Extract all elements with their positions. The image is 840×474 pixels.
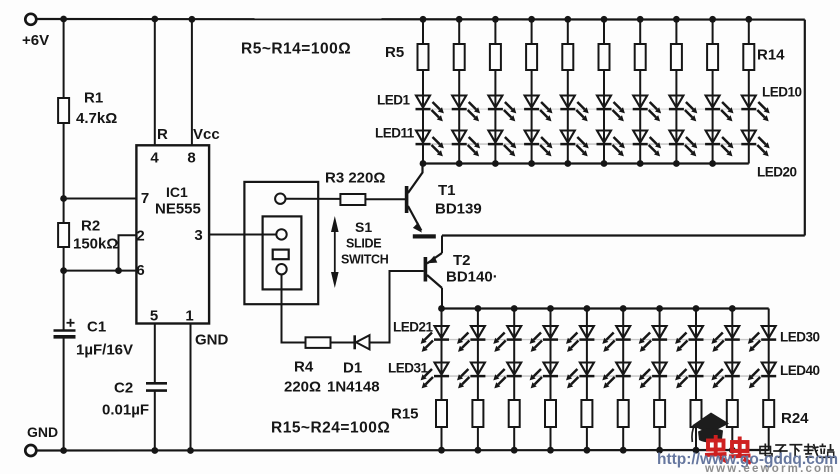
svg-text:T2: T2 [453, 252, 471, 269]
wire bottom array column 8 [695, 309, 697, 451]
LED34 [544, 363, 558, 375]
junction node gnd rail column 6 [620, 447, 627, 454]
svg-text:C2: C2 [114, 380, 133, 397]
wire bottom array column 9 [731, 309, 733, 451]
capacitor C2 [146, 382, 167, 385]
wire right edge (+6V to T2 emitter) [804, 20, 806, 236]
svg-text:Vcc: Vcc [193, 126, 220, 143]
junction node bottom bus column 4 [547, 305, 554, 312]
watermark text dian zi xia zai zhan [760, 444, 834, 458]
LED38 [689, 363, 703, 375]
wire top array column 4 [531, 19, 533, 163]
resistor R20 [618, 400, 629, 427]
junction node rail column 1 [420, 16, 427, 23]
LED37 [653, 363, 667, 375]
wire pin 1 lead [190, 324, 192, 451]
svg-text:4: 4 [150, 150, 159, 167]
LED10 [742, 96, 756, 108]
svg-text:150kΩ: 150kΩ [73, 236, 118, 253]
resistor R2 [63, 199, 65, 224]
wire R1 top lead [63, 19, 65, 98]
LED21 [435, 326, 449, 338]
svg-text:+6V: +6V [22, 32, 49, 49]
svg-text:LED30: LED30 [780, 330, 820, 345]
wire faint row guide top array [423, 108, 749, 110]
terminal GND [25, 445, 36, 456]
wire bottom array column 3 [513, 309, 515, 451]
LED24 [544, 326, 558, 338]
junction node bottom bus column 7 [656, 305, 663, 312]
switch S1 outer box [244, 182, 318, 304]
junction node rail/pin8 [189, 16, 196, 23]
resistor R12 [671, 44, 682, 70]
wire top array column 10 [748, 19, 750, 163]
resistor R13 [707, 44, 718, 70]
watermark graduation cap icon [692, 413, 729, 443]
LED18 [669, 131, 683, 143]
svg-text:GND: GND [27, 424, 58, 440]
transistor T2 BD140 [441, 236, 443, 254]
junction node rail column 3 [492, 16, 499, 23]
wire top array column 1 [422, 19, 424, 163]
resistor R5 [418, 44, 429, 70]
wire top array column 7 [639, 19, 641, 163]
junction node bottom bus column 3 [511, 305, 518, 312]
junction node bottom bus column 2 [475, 305, 482, 312]
LED4 [525, 96, 539, 108]
switch contact top [275, 194, 285, 204]
LED12 [452, 131, 466, 143]
junction node bottom bus column 9 [729, 305, 736, 312]
svg-text:1N4148: 1N4148 [327, 379, 380, 396]
wire bottom array column 10 [768, 309, 770, 451]
wire bottom array column 2 [477, 309, 479, 451]
svg-text:R14: R14 [757, 47, 785, 64]
wire R3 to T1 base [365, 198, 405, 200]
LED20 [742, 131, 756, 143]
junction node C1/GND rail [60, 447, 67, 454]
svg-text:BD139: BD139 [435, 201, 482, 218]
svg-text:R1: R1 [84, 90, 103, 107]
junction node pin1/GND rail [187, 447, 194, 454]
wire switch top to R3 [286, 198, 341, 200]
switch contact middle [276, 229, 286, 239]
svg-text:D1: D1 [343, 360, 362, 377]
svg-text:0.01µF: 0.01µF [102, 402, 149, 419]
resistor R17 [509, 400, 520, 427]
svg-text:6: 6 [136, 262, 144, 279]
resistor R21 [654, 400, 665, 427]
junction node rail column 4 [528, 16, 535, 23]
junction node rail column 7 [637, 16, 644, 23]
svg-text:7: 7 [141, 190, 149, 207]
LED25 [580, 326, 594, 338]
resistor R6 [454, 44, 465, 70]
svg-text:R15~R24=100Ω: R15~R24=100Ω [271, 420, 390, 437]
LED31 [435, 363, 449, 375]
junction node top bus column 7 [637, 160, 644, 167]
wire pin 4 (R) [154, 19, 156, 145]
wire faint row guide bottom array [442, 339, 769, 341]
svg-text:LED10: LED10 [762, 85, 802, 100]
svg-text:8: 8 [187, 150, 195, 167]
terminal +6V [25, 14, 36, 25]
resistor R24 [763, 400, 774, 427]
resistor R9 [562, 44, 573, 70]
LED26 [616, 326, 630, 338]
svg-text:R2: R2 [81, 218, 100, 235]
junction node gnd rail column 3 [511, 447, 518, 454]
junction node top bus column 6 [601, 160, 608, 167]
svg-text:R4: R4 [294, 359, 314, 376]
wire C1 bottom lead [63, 337, 65, 451]
wire pin 6 [64, 270, 137, 272]
junction node +6V/R1 [60, 16, 67, 23]
wire top array column 5 [567, 19, 569, 163]
resistor R19 [581, 400, 592, 427]
svg-text:SWITCH: SWITCH [341, 253, 389, 267]
LED32 [471, 363, 485, 375]
wire GND bottom rail [37, 449, 769, 452]
svg-text:GND: GND [195, 332, 229, 349]
wire bottom LED bus [442, 307, 769, 309]
svg-text:R15: R15 [391, 406, 419, 423]
wire C1 top lead [63, 271, 65, 331]
LED30 [762, 326, 776, 338]
svg-text:R5~R14=100Ω: R5~R14=100Ω [241, 41, 351, 58]
watermark red character chong 2 [729, 437, 751, 464]
svg-text:NE555: NE555 [155, 201, 201, 218]
junction node top bus column 3 [492, 160, 499, 167]
resistor R14 [743, 44, 754, 70]
resistor R4 [306, 337, 331, 348]
resistor R1 [58, 98, 69, 123]
LED17 [633, 131, 647, 143]
wire top array column 3 [494, 19, 496, 163]
wire bottom array column 6 [622, 309, 624, 451]
svg-text:220Ω: 220Ω [284, 379, 321, 396]
svg-text:4.7kΩ: 4.7kΩ [76, 110, 117, 127]
wire R2 bottom lead [63, 247, 65, 271]
junction node gnd rail column 9 [729, 447, 736, 454]
wire bottom array column 5 [586, 309, 588, 451]
wire pin 7 [64, 198, 137, 200]
svg-text:R: R [157, 126, 168, 143]
resistor R23 [727, 400, 738, 427]
LED11 [416, 131, 430, 143]
junction node bottom bus column 1 [438, 305, 445, 312]
LED6 [597, 96, 611, 108]
junction node gnd rail column 8 [693, 447, 700, 454]
wire bottom array column 1 [441, 309, 443, 451]
junction node rail column 2 [456, 16, 463, 23]
svg-text:LED1: LED1 [377, 93, 411, 108]
wire top array column 9 [712, 19, 714, 163]
junction node rail/pin4 [151, 16, 158, 23]
arrow slide indicator [334, 226, 336, 280]
LED15 [561, 131, 575, 143]
junction node R1/R2/pin7 [60, 195, 67, 202]
LED16 [597, 131, 611, 143]
LED2 [452, 96, 466, 108]
junction node bottom bus column 5 [584, 305, 591, 312]
switch wiper [273, 250, 289, 260]
op-amp IC1 NE555 body [136, 145, 209, 323]
resistor R22 [691, 400, 702, 427]
junction node gnd rail column 1 [438, 447, 445, 454]
svg-text:3: 3 [194, 227, 202, 244]
svg-text:LED21: LED21 [393, 320, 434, 335]
diode D1 1N4148 [353, 335, 356, 349]
junction node gnd rail column 7 [656, 447, 663, 454]
LED33 [507, 363, 521, 375]
svg-text:LED11: LED11 [375, 126, 415, 141]
LED3 [488, 96, 502, 108]
LED36 [616, 363, 630, 375]
wire top array column 8 [675, 19, 677, 163]
svg-text:T1: T1 [438, 182, 456, 199]
resistor R18 [545, 400, 556, 427]
LED39 [725, 363, 739, 375]
junction node rail column 5 [564, 16, 571, 23]
resistor R15 [436, 400, 447, 427]
svg-text:5: 5 [150, 308, 158, 325]
wire D1 to T2 base [370, 271, 424, 343]
LED8 [669, 96, 683, 108]
wire pin 3 output [209, 234, 277, 236]
junction node rail column 8 [673, 16, 680, 23]
resistor R3 [340, 194, 365, 205]
LED7 [633, 96, 647, 108]
svg-text:C1: C1 [87, 319, 106, 336]
junction node top bus column 2 [456, 160, 463, 167]
wire top array column 2 [458, 19, 460, 163]
LED23 [507, 326, 521, 338]
junction node C2/GND rail [151, 447, 158, 454]
capacitor C1 [54, 329, 76, 331]
LED40 [762, 363, 776, 375]
svg-text:1µF/16V: 1µF/16V [76, 342, 133, 359]
LED19 [706, 131, 720, 143]
junction node R2/pin6/C1 [60, 267, 67, 274]
svg-text:LED31: LED31 [388, 361, 429, 376]
svg-text:IC1: IC1 [166, 184, 188, 200]
svg-text:2: 2 [136, 228, 144, 245]
LED27 [653, 326, 667, 338]
svg-text:R3 220Ω: R3 220Ω [325, 170, 385, 187]
svg-text:SLIDE: SLIDE [346, 237, 381, 251]
wire bottom array column 7 [659, 309, 661, 451]
svg-text:LED40: LED40 [780, 363, 820, 378]
LED29 [725, 326, 739, 338]
LED28 [689, 326, 703, 338]
junction node gnd rail column 2 [475, 447, 482, 454]
resistor R8 [526, 44, 537, 70]
wire C2 bottom lead [154, 391, 156, 451]
resistor R16 [472, 400, 483, 427]
switch contact bottom [276, 264, 286, 274]
ground (T1 emitter bar) [413, 234, 436, 238]
LED13 [488, 131, 502, 143]
LED9 [706, 96, 720, 108]
transistor T1 BD139 [405, 186, 409, 213]
junction node rail column 6 [601, 16, 608, 23]
wire switch bottom to R4 [282, 274, 306, 342]
junction node bottom bus column 6 [620, 305, 627, 312]
watermark red character chong 1 [705, 435, 727, 462]
LED1 [416, 96, 430, 108]
svg-text:1: 1 [185, 308, 193, 325]
wire T2 emitter bus [442, 234, 805, 236]
LED35 [580, 363, 594, 375]
junction node gnd rail column 5 [584, 447, 591, 454]
svg-text:R24: R24 [781, 410, 809, 427]
junction node pin2/pin6 [115, 267, 122, 274]
switch S1 inner box [263, 216, 302, 289]
LED5 [561, 96, 575, 108]
svg-text:R5: R5 [385, 44, 404, 61]
junction node gnd rail column 4 [547, 447, 554, 454]
wire pin 5 lead [154, 324, 156, 384]
svg-text:LED20: LED20 [757, 165, 797, 180]
LED14 [525, 131, 539, 143]
LED22 [471, 326, 485, 338]
resistor R7 [490, 44, 501, 70]
wire pin 8 (Vcc) [191, 19, 193, 145]
wire top LED bus [423, 162, 749, 164]
svg-text:www.eeworm.com: www.eeworm.com [704, 463, 836, 474]
junction node top bus column 4 [528, 160, 535, 167]
resistor R10 [599, 44, 610, 70]
resistor R11 [635, 44, 646, 70]
junction node top bus column 9 [709, 160, 716, 167]
junction node rail column 9 [709, 16, 716, 23]
wire +6V top rail [37, 18, 805, 21]
junction node top bus column 1 [420, 160, 427, 167]
svg-text:S1: S1 [355, 219, 372, 235]
junction node top bus column 8 [673, 160, 680, 167]
wire R1 bottom lead [63, 123, 65, 199]
wire bottom array column 4 [550, 309, 552, 451]
wire pin 2 to pin 6 [119, 235, 137, 270]
junction node top bus column 5 [564, 160, 571, 167]
junction node rail column 10 [745, 16, 752, 23]
svg-text:BD140·: BD140· [446, 269, 498, 286]
junction node bottom bus column 8 [693, 305, 700, 312]
wire R4 to D1 [331, 342, 354, 344]
wire top array column 6 [603, 19, 605, 163]
